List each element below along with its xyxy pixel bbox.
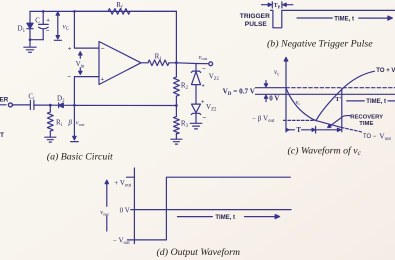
wire feedback drop to output node xyxy=(175,11,177,62)
resistor Ri xyxy=(47,105,53,137)
wire trigger stub at left edge xyxy=(0,104,6,106)
capacitor C (polarized) xyxy=(39,11,49,39)
VD level line solid part xyxy=(256,87,287,89)
svg-text:TIME, t: TIME, t xyxy=(215,215,235,221)
resistor R2 xyxy=(174,63,180,106)
zener diode VZ1 xyxy=(191,64,200,105)
svg-text:−: − xyxy=(46,27,50,35)
-Vout tick xyxy=(128,239,135,241)
voltage arrow Vin (double headed, label gap) xyxy=(79,52,82,75)
diode D1 xyxy=(27,23,33,40)
wire beta feedback rail to R2/R3 junction xyxy=(74,104,176,106)
trigger pulse waveform xyxy=(271,10,395,27)
svg-text:β: β xyxy=(68,119,73,126)
ground below zeners xyxy=(190,123,202,129)
svg-text:C: C xyxy=(35,17,40,25)
svg-text:−: − xyxy=(101,45,105,53)
wire output node to vout terminal xyxy=(176,62,208,65)
svg-text:RECOVERY: RECOVERY xyxy=(350,115,383,121)
wire Ci node to D2 xyxy=(50,104,58,106)
resistor Rf (feedback) xyxy=(74,9,176,15)
wire noninverting input branch xyxy=(74,77,99,106)
axis vertical (d) xyxy=(133,168,135,244)
capacitor Ci xyxy=(30,101,50,110)
svg-text:TIME: TIME xyxy=(359,121,373,127)
decay extrapolation solid to vertical line xyxy=(316,121,341,128)
voltage arrow vC (double headed with bottom bar) xyxy=(54,12,61,40)
wire inverting input branch xyxy=(74,11,99,48)
svg-text:PUT: PUT xyxy=(0,132,4,139)
svg-text:−: − xyxy=(202,114,206,122)
wire D2 to noninverting node xyxy=(63,104,74,106)
node: R2/R3/beta junction xyxy=(175,104,178,107)
VD level line dashed part xyxy=(286,87,395,89)
wire R1 to output node xyxy=(169,62,176,64)
svg-text:TP: TP xyxy=(274,3,281,9)
vc decay curve xyxy=(286,88,316,121)
decay extrapolation dashed to -Vout xyxy=(341,127,361,131)
node: top rail / C junction xyxy=(42,10,45,13)
resistor R1 xyxy=(148,60,169,66)
ground below Ri xyxy=(45,137,56,142)
axis vertical vc xyxy=(284,57,288,132)
recovery end vertical line xyxy=(341,89,343,132)
recovery interval marker xyxy=(316,128,341,131)
svg-text:+: + xyxy=(201,84,205,90)
svg-text:−: − xyxy=(202,65,206,73)
node: R1/R2/feedback junction xyxy=(175,61,178,64)
node: D1/C bottom junction xyxy=(29,38,32,41)
ground below R3 xyxy=(171,139,182,144)
svg-text:T′: T′ xyxy=(335,96,341,103)
svg-text:PULSE: PULSE xyxy=(245,21,268,28)
wire left branch down to diode D1 xyxy=(29,11,31,23)
svg-text:−: − xyxy=(67,73,71,81)
recovery time leader arrow xyxy=(328,116,351,128)
svg-text:0 V: 0 V xyxy=(120,207,130,215)
svg-text:TIME, t: TIME, t xyxy=(334,16,354,22)
diode D2 xyxy=(59,103,64,108)
svg-text:0 V: 0 V xyxy=(269,95,279,103)
svg-text:+: + xyxy=(46,17,50,24)
svg-text:TO −: TO − xyxy=(363,134,377,140)
0V line (d) xyxy=(131,209,291,211)
Tp width marker xyxy=(262,2,293,8)
svg-text:+: + xyxy=(68,46,72,53)
svg-text:T: T xyxy=(296,127,301,134)
node: noninverting input / beta wire junction xyxy=(73,104,76,107)
svg-text:(c) Waveform of vc: (c) Waveform of vc xyxy=(288,146,362,157)
gap arrow up at 0V line xyxy=(264,95,267,101)
zener diode VZ2 xyxy=(191,104,200,123)
svg-text:TRIGGER: TRIGGER xyxy=(240,13,270,20)
ground below D1 xyxy=(24,40,36,53)
time axis label (c) xyxy=(347,100,395,102)
+Vout tick xyxy=(127,176,135,178)
svg-text:TO + Vout: TO + Vout xyxy=(376,68,395,74)
svg-text:+: + xyxy=(100,76,104,83)
T interval marker xyxy=(286,126,315,133)
svg-text:(b) Negative Trigger Pulse: (b) Negative Trigger Pulse xyxy=(267,38,373,49)
wire top rail from D1/C corner to feedback corner xyxy=(30,10,176,12)
svg-text:+: + xyxy=(201,99,205,105)
voltage arrow beta-vout (down arrow with bar) xyxy=(71,108,79,142)
op-amp U1 xyxy=(99,42,141,85)
time axis label (d) xyxy=(178,215,280,219)
output waveform trace xyxy=(134,177,290,240)
svg-text:(a) Basic Circuit: (a) Basic Circuit xyxy=(47,151,113,162)
vout axis label arrow xyxy=(105,180,108,231)
time axis label (b) xyxy=(297,16,392,20)
terminal vout xyxy=(209,62,213,66)
node: top rail / inverting-input branch junction xyxy=(73,10,76,13)
0V axis line xyxy=(256,93,395,95)
svg-text:TIME, t: TIME, t xyxy=(366,99,386,105)
terminal trigger input xyxy=(8,103,12,107)
svg-text:(d) Output Waveform: (d) Output Waveform xyxy=(157,247,241,258)
gap arrow down at VD line xyxy=(264,81,267,87)
wire bottom of C to D1 node xyxy=(30,39,43,41)
recovery rising curve xyxy=(316,71,375,120)
resistor R3 xyxy=(174,106,180,140)
svg-text:GGER: GGER xyxy=(0,96,9,103)
node: Ri junction xyxy=(49,104,52,107)
wire op-amp output to R1 xyxy=(141,62,148,64)
-beta Vout dashed level xyxy=(284,119,317,121)
wire terminal to Ci xyxy=(13,104,30,106)
